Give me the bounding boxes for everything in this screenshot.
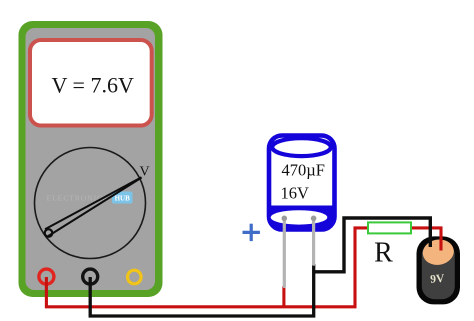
multimeter display (reading V = 7.6V) bbox=[30, 40, 152, 126]
wire red: capacitor + lead to bottom rail (junction) bbox=[282, 286, 285, 307]
svg-text:16V: 16V bbox=[281, 184, 310, 203]
capacitor + lead (left, gray) bbox=[282, 216, 288, 287]
svg-text:HUB: HUB bbox=[115, 195, 131, 203]
multimeter M1 body bbox=[19, 21, 163, 297]
capacitor polarity mark + bbox=[243, 224, 260, 241]
battery BT1 9V body bbox=[417, 236, 461, 304]
resistor R bbox=[368, 222, 411, 233]
wire red: multimeter V+ terminal to node A (bottom rail) then to resistor and battery + bbox=[46, 228, 441, 307]
dial needle bbox=[45, 177, 142, 237]
multimeter dial bbox=[35, 148, 146, 259]
multimeter terminal (red, V+) bbox=[39, 269, 54, 284]
capacitor - lead (right, gray) bbox=[311, 216, 317, 265]
svg-text:470µF: 470µF bbox=[282, 161, 325, 180]
svg-text:9V: 9V bbox=[430, 273, 446, 286]
capacitor C1 body bbox=[269, 136, 335, 230]
wire black: multimeter COM terminal to capacitor - lead bbox=[90, 264, 314, 316]
multimeter terminal (black, COM) bbox=[83, 269, 98, 284]
multimeter terminal (yellow, A) bbox=[128, 270, 142, 284]
svg-text:R: R bbox=[374, 238, 393, 269]
wire black: junction at capacitor - lead to battery - terminal bbox=[314, 218, 431, 272]
watermark ELECTRONICS HUB bbox=[47, 192, 133, 204]
capacitor value label 470µF 16V bbox=[281, 161, 325, 203]
svg-text:V = 7.6V: V = 7.6V bbox=[52, 72, 134, 97]
